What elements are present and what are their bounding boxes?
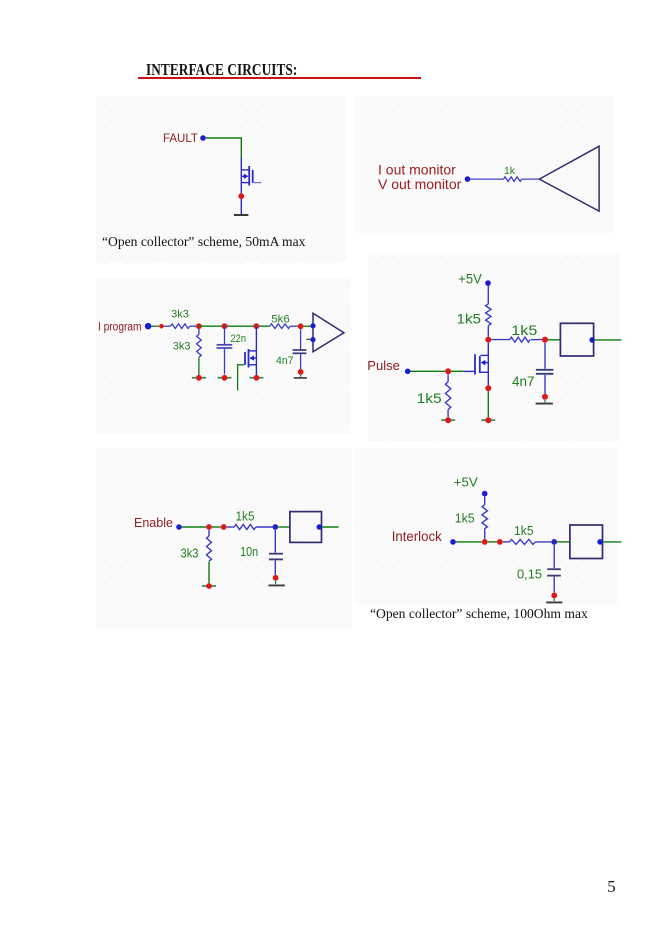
svg-text:0,15: 0,15 [517, 566, 542, 581]
svg-text:V out monitor: V out monitor [378, 176, 462, 192]
resistor R5 1k5 vertical [486, 286, 491, 337]
svg-text:1k5: 1k5 [514, 523, 534, 538]
capacitor C1 22n [217, 326, 233, 374]
node FAULT terminal dot [200, 135, 206, 141]
svg-text:1k5: 1k5 [457, 311, 482, 327]
wire C4 dot to ground [275, 581, 277, 585]
wire monitor to resistor [470, 178, 503, 180]
svg-text:1k5: 1k5 [455, 511, 475, 526]
node I program terminal dot [145, 323, 152, 330]
power +5V label panel4 [458, 272, 482, 287]
connector box J4 [570, 525, 603, 559]
wire node I to node J [488, 541, 497, 543]
junction dot node F [206, 524, 212, 530]
transistor Q1 n-mosfet [241, 158, 261, 193]
pin dot U1 input plus [310, 323, 315, 328]
connector box J2 [560, 323, 593, 356]
ground rail R9 [202, 585, 216, 587]
svg-text:FAULT: FAULT [163, 133, 198, 145]
label 1k5 R8 [236, 510, 255, 524]
transistor Q3 n-mosfet [475, 343, 488, 386]
label 22n [231, 333, 247, 345]
junction dot C2 ground [298, 369, 304, 375]
junction dot Q2 tap [254, 323, 260, 329]
capacitor C4 10n [269, 530, 283, 575]
node Interlock label [392, 529, 442, 544]
node Enable label [134, 516, 173, 530]
title INTERFACE CIRCUITS [146, 60, 297, 80]
wire Enable to junction [182, 526, 206, 528]
junction dot C1 ground [222, 375, 228, 381]
junction dot C5 ground [551, 593, 557, 599]
ground bar C2 [294, 377, 307, 379]
resistor 1k zigzag [504, 177, 522, 182]
resistor R6 1k5 horizontal [491, 337, 542, 342]
wire Interlock to junction [456, 541, 482, 543]
title red underline [138, 77, 421, 79]
wire FAULT to drain [206, 138, 242, 158]
wire Q3 source to ground [487, 391, 489, 417]
svg-text:3k3: 3k3 [181, 546, 199, 560]
power +5V terminal dot panel6 [482, 491, 488, 497]
wire rail A to 5k6 [199, 325, 270, 327]
label 0,15 [517, 566, 542, 581]
capacitor C2 4n7 [293, 329, 307, 369]
node Pulse terminal dot [405, 369, 411, 375]
svg-text:10n: 10n [240, 545, 258, 559]
label 1k5 R11 [514, 523, 534, 538]
resistor R9 3k3 vertical [207, 530, 212, 561]
ground bar C3 [536, 403, 553, 405]
junction dot node B [298, 323, 304, 329]
ground rail C1 [218, 377, 232, 379]
junction dot R7 ground [445, 417, 451, 423]
label 1k5 R6 [511, 323, 537, 338]
wire C3 dot to ground [544, 400, 546, 403]
pin dot J3 [317, 524, 323, 530]
wire R9 to ground [208, 562, 210, 584]
label 3k3 R9 [181, 546, 199, 560]
junction dot J1 [159, 324, 164, 329]
power +5V terminal dot panel4 [485, 280, 491, 286]
svg-text:22n: 22n [231, 333, 247, 345]
resistor R8 1k5 horizontal [227, 525, 273, 530]
ground bar C5 [546, 601, 562, 603]
junction dot node C [485, 337, 491, 343]
node FAULT label [163, 133, 198, 145]
capacitor C3 4n7 [536, 343, 554, 394]
label 1k5 R10 [455, 511, 475, 526]
node Pulse label [367, 358, 400, 373]
wire terminal to junction [151, 325, 159, 327]
junction dot C3 ground [542, 394, 548, 400]
wire gate lead blue [464, 370, 475, 372]
op-amp U1 triangle [313, 313, 344, 352]
node Enable terminal dot [176, 524, 182, 530]
op-amp buffer triangle [539, 146, 599, 211]
resistor R2 3k3 horizontal [164, 324, 196, 329]
label 1k5 R5 [457, 311, 482, 327]
junction dot R9 ground [206, 583, 212, 589]
wire Pulse to junction [411, 370, 446, 372]
svg-text:4n7: 4n7 [512, 374, 535, 389]
pin dot J4 [597, 539, 603, 545]
svg-text:3k3: 3k3 [173, 340, 191, 352]
node I program label [98, 321, 142, 333]
svg-text:5k6: 5k6 [271, 313, 290, 325]
svg-text:4n7: 4n7 [276, 355, 294, 367]
wire Q2 gate lead [238, 365, 245, 391]
wire node H to connector [278, 526, 290, 528]
wire resistor to buffer [522, 178, 540, 180]
resistor R10 1k5 vertical [482, 496, 487, 539]
wire node B to op-amp [304, 325, 311, 327]
pin dot J2 [589, 337, 595, 343]
junction dot node A [196, 323, 202, 329]
wire node E to gate [451, 370, 464, 372]
svg-text:1k5: 1k5 [417, 391, 442, 406]
junction dot node K blue [551, 539, 557, 545]
wire C2 dot to ground [300, 375, 302, 377]
label 1k5 R7 [417, 391, 442, 406]
wire J2 output stub [594, 339, 622, 341]
svg-text:3k3: 3k3 [171, 309, 189, 321]
resistor R3 3k3 vertical [197, 329, 202, 357]
ground rail Q3 [481, 419, 495, 421]
svg-text:1k: 1k [504, 165, 516, 177]
transistor Q2 n-mosfet mirrored [245, 326, 256, 375]
junction dot source [238, 193, 244, 199]
wire node D to connector [548, 339, 560, 341]
node monitor terminal dot [465, 176, 471, 182]
resistor R4 5k6 [270, 324, 298, 329]
svg-text:Interlock: Interlock [392, 529, 442, 544]
junction dot node E [445, 368, 451, 374]
wire node K to connector [557, 541, 570, 543]
capacitor C5 0,15 [547, 545, 561, 593]
pin dot U1 input minus [310, 337, 315, 342]
resistor R11 1k5 horizontal [503, 539, 552, 544]
junction dot node D [542, 337, 548, 343]
ground rail R7 [441, 419, 455, 421]
page number [607, 877, 615, 897]
wire node F to junction G [212, 526, 221, 528]
resistor R7 1k5 vertical [445, 374, 450, 417]
junction dot node G [221, 524, 227, 530]
junction dot C4 ground [273, 575, 279, 581]
label 3k3 vertical [173, 340, 191, 352]
junction dot node I [482, 539, 488, 545]
label 3k3 [171, 309, 189, 321]
label 10n [240, 545, 258, 559]
junction dot R3 ground [196, 375, 202, 381]
junction dot 22n tap [222, 323, 228, 329]
ground bar panel1 [234, 214, 249, 216]
wire J3 output stub [322, 526, 339, 528]
connector box J3 [290, 512, 322, 543]
svg-text:I program: I program [98, 321, 142, 333]
label 4n7 panel4 [512, 374, 535, 389]
ground bar C4 [268, 584, 284, 586]
label 1k [504, 165, 516, 177]
caption open collector 50mA [102, 234, 305, 250]
label 4n7 [276, 355, 294, 367]
svg-text:1k5: 1k5 [511, 323, 537, 338]
wire 3k3 to ground [198, 357, 200, 377]
wire stub U1 minus input [306, 338, 310, 340]
ground rail Q2 [249, 377, 263, 379]
svg-text:Enable: Enable [134, 516, 173, 530]
wire J4 output stub [603, 541, 622, 543]
junction dot node J [497, 539, 503, 545]
node Interlock terminal dot [450, 539, 456, 545]
junction dot Q3 source [485, 385, 491, 391]
label 5k6 [271, 313, 290, 325]
junction dot Q3 ground [485, 417, 491, 423]
svg-text:1k5: 1k5 [236, 510, 255, 524]
power +5V label panel6 [454, 474, 478, 489]
svg-text:+5V: +5V [458, 272, 482, 287]
node I out monitor / V out monitor labels [378, 162, 462, 192]
junction dot node H blue [272, 524, 278, 530]
svg-text:Pulse: Pulse [367, 358, 400, 373]
wire C5 dot to ground [553, 598, 555, 601]
caption open collector 100Ohm [370, 606, 588, 622]
wire source to ground [240, 193, 242, 214]
svg-text:+5V: +5V [454, 474, 478, 489]
junction dot Q2 source ground [254, 375, 260, 381]
ground rail R3 [192, 377, 206, 379]
